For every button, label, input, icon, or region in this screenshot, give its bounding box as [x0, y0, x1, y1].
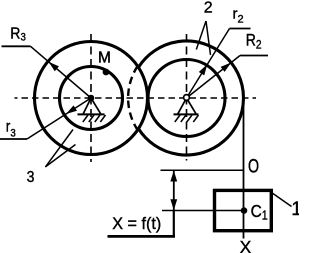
svg-text:X: X — [240, 237, 252, 253]
svg-text:M: M — [98, 50, 111, 67]
svg-text:X = f(t): X = f(t) — [112, 214, 161, 233]
svg-text:2: 2 — [204, 0, 213, 17]
svg-text:1: 1 — [291, 199, 299, 220]
svg-text:O: O — [248, 155, 259, 176]
svg-text:3: 3 — [27, 168, 35, 186]
